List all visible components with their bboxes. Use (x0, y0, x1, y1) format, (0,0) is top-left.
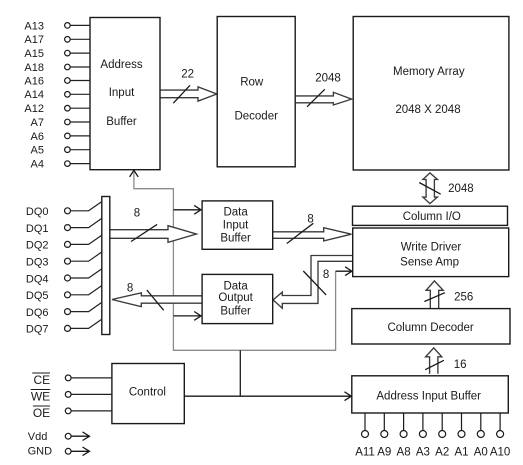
svg-text:A5: A5 (31, 145, 44, 157)
svg-text:Data: Data (223, 280, 248, 292)
svg-text:A0: A0 (474, 447, 488, 459)
svg-text:A11: A11 (355, 447, 375, 459)
svg-text:2048: 2048 (315, 73, 341, 85)
svg-text:Output: Output (218, 292, 253, 304)
svg-text:A2: A2 (435, 447, 449, 459)
svg-text:A17: A17 (24, 34, 44, 46)
svg-text:Address: Address (100, 59, 142, 71)
svg-text:2048: 2048 (448, 183, 474, 195)
svg-text:2048 X 2048: 2048 X 2048 (395, 104, 460, 116)
svg-text:A10: A10 (490, 447, 510, 459)
svg-text:256: 256 (454, 291, 473, 303)
svg-text:Input: Input (223, 220, 249, 232)
svg-text:Sense Amp: Sense Amp (400, 256, 459, 268)
svg-text:GND: GND (28, 445, 52, 457)
svg-text:Vdd: Vdd (28, 431, 48, 443)
svg-text:A16: A16 (24, 75, 44, 87)
svg-text:Data: Data (223, 207, 248, 219)
svg-text:DQ1: DQ1 (26, 223, 49, 235)
svg-text:DQ0: DQ0 (26, 206, 49, 218)
svg-text:Buffer: Buffer (220, 306, 251, 318)
svg-text:OE: OE (33, 406, 50, 420)
svg-text:Buffer: Buffer (106, 116, 137, 128)
svg-text:A7: A7 (31, 117, 44, 129)
svg-text:8: 8 (323, 269, 329, 281)
svg-text:WE: WE (31, 390, 50, 404)
svg-text:A4: A4 (31, 159, 44, 171)
svg-text:16: 16 (454, 359, 467, 371)
svg-text:A15: A15 (24, 48, 44, 60)
svg-text:8: 8 (134, 207, 140, 219)
svg-text:A3: A3 (416, 447, 430, 459)
svg-text:Column Decoder: Column Decoder (387, 322, 473, 334)
svg-text:A9: A9 (377, 447, 391, 459)
svg-text:Row: Row (240, 77, 264, 89)
svg-text:A13: A13 (24, 20, 44, 32)
svg-text:DQ7: DQ7 (26, 324, 49, 336)
svg-text:Buffer: Buffer (220, 232, 251, 244)
svg-text:DQ2: DQ2 (26, 240, 49, 252)
svg-text:DQ4: DQ4 (26, 273, 49, 285)
svg-text:A1: A1 (454, 447, 468, 459)
svg-text:CE: CE (34, 373, 51, 387)
svg-text:Write Driver: Write Driver (401, 241, 462, 253)
svg-text:8: 8 (307, 213, 313, 225)
svg-text:A8: A8 (397, 447, 411, 459)
svg-text:Decoder: Decoder (234, 111, 278, 123)
svg-text:DQ5: DQ5 (26, 290, 49, 302)
svg-text:A12: A12 (24, 103, 44, 115)
svg-text:Memory Array: Memory Array (393, 66, 465, 78)
svg-text:22: 22 (181, 68, 194, 80)
svg-text:Control: Control (129, 387, 166, 399)
svg-text:A6: A6 (31, 131, 44, 143)
svg-text:8: 8 (127, 282, 133, 294)
svg-text:Input: Input (109, 87, 135, 99)
svg-text:A18: A18 (24, 62, 44, 74)
svg-text:DQ3: DQ3 (26, 257, 49, 269)
svg-text:Address Input Buffer: Address Input Buffer (376, 390, 481, 402)
svg-text:A14: A14 (24, 89, 44, 101)
svg-text:Column I/O: Column I/O (403, 211, 461, 223)
svg-text:DQ6: DQ6 (26, 307, 49, 319)
